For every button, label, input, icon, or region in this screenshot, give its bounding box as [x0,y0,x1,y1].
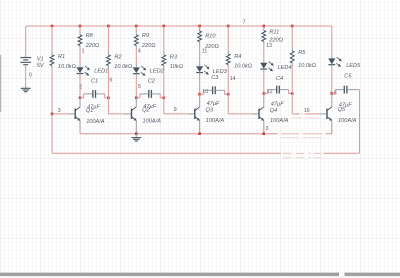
svg-text:47µF: 47µF [271,101,284,107]
svg-text:5: 5 [138,84,141,90]
svg-text:LED5: LED5 [346,63,361,69]
svg-text:14: 14 [230,76,236,82]
wire ghost echo (bottom rail) [283,157,292,159]
resistor R2 (10.0kΩ) [107,26,109,52]
svg-text:100A/A: 100A/A [206,118,225,124]
svg-text:R5: R5 [298,50,306,56]
svg-text:C5: C5 [344,74,352,80]
capacitor C5 [332,90,336,94]
wire R3 down to C2 node [163,69,165,98]
wire battery to ground [25,68,27,85]
LED LED4 [263,60,265,63]
ground (battery) [25,84,27,88]
resistor R10 (220 Ohm) [199,26,201,28]
node collector of Q3 [198,93,201,96]
wire top supply rail (net 7) [26,25,332,27]
resistor R5 (10.0kΩ) [291,26,293,48]
svg-text:100A/A: 100A/A [143,119,162,125]
transistor Q1 [68,113,76,115]
capacitor C4 [264,90,268,94]
svg-text:R10: R10 [205,34,216,40]
svg-text:6: 6 [110,78,113,84]
wire LED5 cathode to collector node [331,68,333,94]
junction on top rail [227,25,230,28]
wire R4 down to C3 node [227,68,229,94]
svg-text:C2: C2 [148,79,156,85]
node collector of Q2 [135,97,138,100]
wire C4 node down to base of Q5 [291,94,293,114]
wire R2 down to C1 node [107,69,109,98]
LED LED5 [331,55,333,58]
svg-text:3: 3 [58,108,61,114]
node C1 right / base net of Q2 [107,97,110,100]
svg-text:V1: V1 [37,56,44,62]
scrollbar bottom [0,273,400,276]
wire base of Q3 [164,113,188,115]
wire LED2 cathode to collector node [135,77,137,98]
svg-text:10.0kΩ: 10.0kΩ [298,63,317,69]
svg-text:10.0kΩ: 10.0kΩ [114,64,133,70]
transistor Q3 [187,113,195,115]
svg-text:4: 4 [138,49,141,55]
node C3 right / base net of Q4 [227,93,230,96]
svg-text:R4: R4 [234,54,241,60]
resistor R11 (220 Ohm) [263,26,265,27]
wire base of Q1 [52,113,68,115]
svg-text:100A/A: 100A/A [86,119,105,125]
wire LED3 cathode to collector node [199,75,201,94]
node C4 right / base net of Q5 [291,92,294,95]
wire battery column [25,26,27,54]
resistor R3 (10kΩ) [163,26,165,52]
svg-text:LED2: LED2 [150,69,165,75]
svg-text:10.0kΩ: 10.0kΩ [58,64,77,70]
wire C3 node down to base of Q4 [227,94,229,114]
svg-text:10kΩ: 10kΩ [170,64,184,70]
svg-text:220Ω: 220Ω [141,43,156,49]
svg-text:10.0kΩ: 10.0kΩ [234,63,253,69]
svg-text:Q3: Q3 [206,107,214,113]
svg-text:LED4: LED4 [278,65,292,71]
transistor Q5 [319,113,327,115]
wire bottom feedback rail [52,152,281,154]
junction emitter rail [135,132,138,135]
wire ghost echo (emitter rail) [281,137,299,139]
wire C2 node down to base of Q3 [163,98,165,114]
node collector of Q5 [331,92,334,95]
svg-text:Q1: Q1 [86,108,93,114]
wire rail to LED5 [331,26,333,56]
svg-text:9: 9 [174,107,177,113]
wire R1 to base node of Q1 [51,69,53,114]
node collector of Q4 [263,92,266,95]
svg-text:Q5: Q5 [338,107,346,113]
capacitor C2 [136,94,140,98]
svg-text:C4: C4 [276,76,283,82]
svg-text:7: 7 [243,20,246,26]
node base of Q1 (net 3) [51,113,54,116]
node C2 right / base net of Q3 [163,97,166,100]
svg-text:C3: C3 [211,75,219,81]
wire emitter rail (net 0) [80,133,278,135]
svg-text:C1: C1 [91,79,98,85]
svg-text:11: 11 [202,49,207,55]
node collector of Q1 [79,97,82,100]
svg-text:Q4: Q4 [270,108,277,114]
wire C1 node down to base of Q2 [107,98,109,114]
wire base of Q4 [228,113,251,115]
junction emitter rail [198,132,201,135]
junction on top rail [135,25,138,28]
wire base node Q1 down to bottom rail [51,114,53,153]
junction on top rail [107,25,110,28]
junction on top rail [163,25,166,28]
resistor R9 (220 Ohm) [135,26,137,32]
resistor R1 (10.0kΩ) [51,26,53,52]
wire LED4 cathode to collector node [263,72,265,94]
wire bottom rail up to C5 right plate [359,90,361,154]
junction on top rail [79,25,82,28]
svg-text:R9: R9 [142,33,149,39]
svg-text:100A/A: 100A/A [338,118,357,124]
LED LED3 [199,63,201,66]
svg-text:47µF: 47µF [207,101,220,107]
svg-text:R2: R2 [114,54,122,60]
svg-text:R3: R3 [170,54,178,60]
junction on top rail [51,25,54,28]
junction emitter rail [263,132,266,135]
svg-text:R1: R1 [58,54,65,60]
svg-text:Q2: Q2 [142,108,150,114]
svg-text:R8: R8 [86,33,94,39]
LED LED1 [79,64,81,67]
wire ghost echo (Q5 base wire) [293,117,302,119]
capacitor C3 [200,90,204,94]
svg-text:16: 16 [304,108,310,114]
svg-text:220Ω: 220Ω [85,43,100,49]
resistor R4 (10.0kΩ) [227,26,229,51]
svg-text:100A/A: 100A/A [270,118,289,124]
LED LED2 [135,64,137,67]
wire base of Q2 [108,113,124,115]
svg-text:13: 13 [266,43,272,49]
svg-text:1: 1 [82,48,85,54]
wire R5 down to C4 node [291,66,293,93]
transistor Q4 [251,113,259,115]
svg-text:0: 0 [266,126,269,132]
junction on top rail [291,25,294,28]
junction on top rail [263,25,266,28]
wire base of Q5 (partly faded) [292,113,300,115]
ground (emitter rail) [135,134,137,138]
resistor R8 (220 Ohm) [79,26,81,32]
capacitor C1 [80,94,84,98]
scrollbar left edge [0,55,1,112]
battery V1 [25,54,27,57]
svg-text:LED1: LED1 [94,69,108,75]
wire LED1 cathode to collector node [79,76,81,98]
junction on top rail [198,25,201,28]
svg-text:R11: R11 [269,29,279,35]
transistor Q2 [124,113,132,115]
svg-text:2: 2 [79,85,82,91]
svg-text:0: 0 [29,73,32,79]
